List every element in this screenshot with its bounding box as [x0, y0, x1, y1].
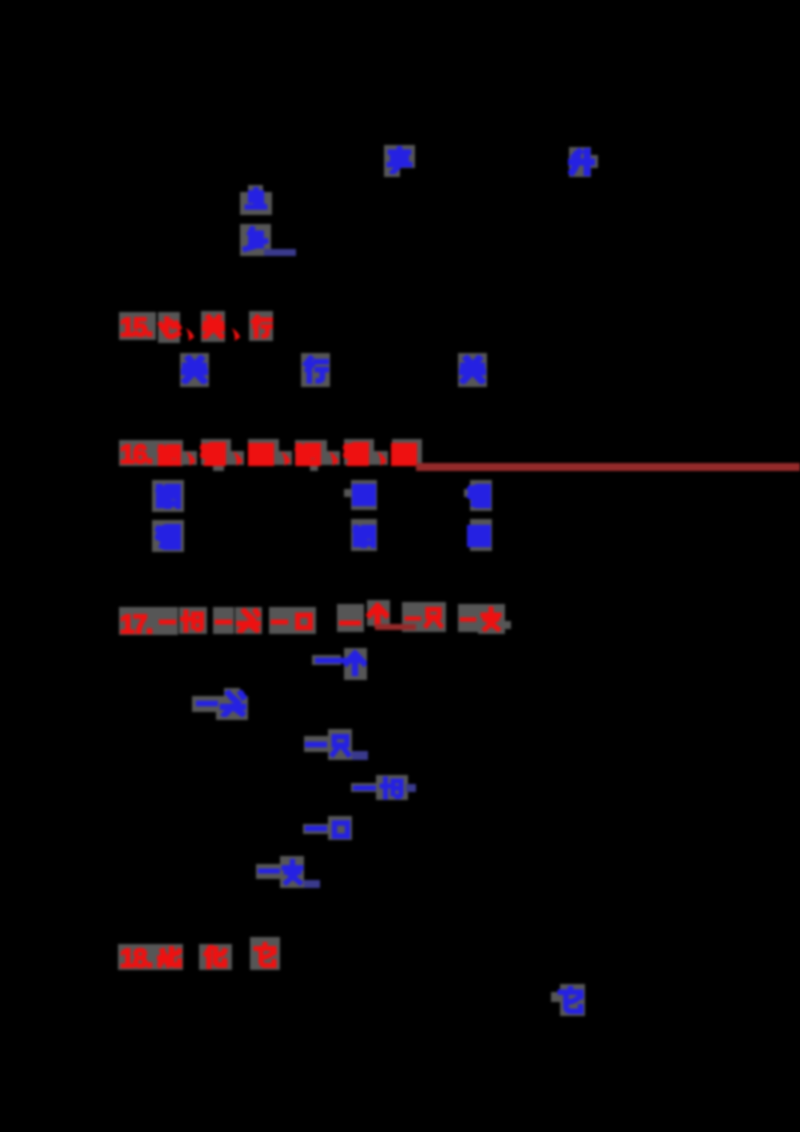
blue row under 15	[180, 353, 209, 387]
gray box behind chong	[240, 192, 272, 215]
blue pair column 3	[470, 480, 492, 511]
blue answer 6: yi + zhi2	[256, 864, 280, 879]
row 15 gray boxes	[119, 312, 156, 340]
navy bar after shen	[264, 249, 296, 256]
blue pair column 1	[152, 480, 184, 512]
red char xin	[156, 316, 182, 341]
blue answer 1: yi + ge	[312, 655, 341, 665]
red he	[202, 945, 229, 969]
row 18	[118, 944, 183, 970]
blue char chong	[243, 187, 269, 214]
red ta	[253, 942, 277, 969]
red yi 1 + ba	[158, 618, 177, 626]
red yi 6 + zhi2	[459, 616, 477, 623]
blue char shen	[242, 226, 269, 254]
maroon bar under ge	[375, 624, 416, 630]
red label 15.	[120, 312, 152, 343]
red char xing	[250, 314, 273, 339]
blue pair column 2	[351, 480, 377, 510]
red yi 2 + tou	[214, 618, 233, 626]
red dun 2	[230, 327, 243, 342]
blue char sheng2	[568, 148, 595, 176]
blue answer 3: yi + zhi	[304, 736, 328, 752]
bottom blue ta	[560, 984, 585, 1016]
red nu	[157, 945, 182, 969]
blue char sheng (top row 1)	[386, 146, 413, 174]
red yi 4 + ge	[338, 619, 362, 627]
gray box behind shen	[240, 224, 271, 256]
gray box behind top char 1	[384, 145, 415, 177]
maroon line	[416, 463, 800, 471]
gray box behind top char 2	[569, 147, 591, 177]
blue answer 2: yi + tou	[192, 696, 217, 712]
row 17	[119, 607, 158, 635]
red dense chars row16	[157, 443, 182, 466]
red yi 3 + kou	[270, 618, 289, 626]
red label 16.	[120, 439, 152, 470]
red dun 1	[184, 327, 197, 342]
red label 17.	[120, 609, 152, 640]
red yi 5 + zhi	[404, 615, 422, 622]
row 16 gray boxes	[119, 440, 183, 466]
blue answer 4: yi + ba	[351, 783, 376, 792]
red char guan	[202, 314, 225, 339]
blue answer 5: yi + kou	[303, 824, 328, 834]
